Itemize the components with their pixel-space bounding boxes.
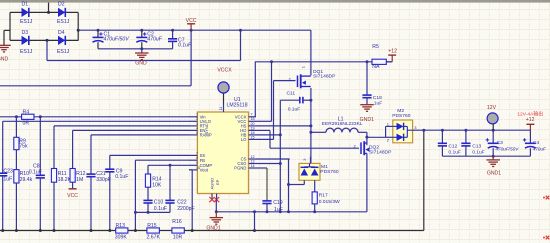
wire pin10 Vout line bbox=[189, 170, 192, 231]
svg-text:NA: NA bbox=[372, 64, 380, 70]
wire pin3 RT line bbox=[54, 126, 189, 169]
capacitor C8 bbox=[29, 117, 45, 231]
wire pin7 SS line bbox=[110, 155, 189, 169]
resistor R10 bbox=[14, 150, 33, 231]
power VCC bbox=[186, 18, 197, 30]
svg-text:AGND: AGND bbox=[209, 178, 214, 190]
wire LO to DQ1 gate bbox=[256, 81, 296, 140]
svg-text:15: 15 bbox=[251, 135, 255, 139]
wire CS riser bbox=[287, 159, 290, 212]
wire M1 top pin bbox=[302, 157, 311, 164]
U1 pin 11 SYNC stub bbox=[219, 105, 223, 113]
marker red right lower bbox=[543, 236, 549, 240]
svg-text:C18: C18 bbox=[373, 95, 382, 101]
ground GND1 output bbox=[486, 156, 501, 176]
wire comp bottom link bbox=[135, 211, 170, 214]
resistor R13 bbox=[115, 223, 128, 241]
svg-text:R17: R17 bbox=[319, 193, 328, 199]
resistor R5 bbox=[372, 44, 386, 70]
label 12V-4A output bbox=[517, 111, 543, 118]
resistor R15 bbox=[147, 223, 161, 241]
capacitor C4 bbox=[523, 130, 547, 156]
svg-text:0.1uF: 0.1uF bbox=[178, 43, 192, 49]
svg-text:0.1uF: 0.1uF bbox=[472, 150, 485, 156]
svg-text:1uF: 1uF bbox=[3, 176, 12, 182]
wire VIN aux rail bbox=[255, 60, 392, 63]
capacitor C15 bbox=[362, 62, 382, 107]
svg-text:ES1J: ES1J bbox=[57, 19, 70, 25]
resistor R17 bbox=[312, 192, 340, 212]
M2 pin stubs bbox=[367, 121, 420, 142]
power VCC below R12 bbox=[67, 189, 78, 199]
svg-text:20: 20 bbox=[251, 122, 255, 126]
svg-text:ES1J: ES1J bbox=[20, 49, 33, 55]
resistor R14 bbox=[145, 165, 162, 200]
svg-text:ES1J: ES1J bbox=[20, 19, 33, 25]
svg-text:R15: R15 bbox=[147, 223, 157, 229]
capacitor C19 bbox=[262, 168, 282, 213]
svg-text:12: 12 bbox=[251, 155, 255, 159]
svg-text:C22: C22 bbox=[177, 200, 187, 206]
svg-text:SI7148DP: SI7148DP bbox=[313, 73, 336, 79]
svg-text:0.1uF: 0.1uF bbox=[29, 170, 42, 176]
svg-text:Vout: Vout bbox=[200, 168, 209, 173]
svg-text:4: 4 bbox=[196, 126, 198, 130]
svg-text:7: 7 bbox=[196, 151, 198, 155]
svg-text:R13: R13 bbox=[116, 223, 126, 229]
ground GND below C2 bbox=[135, 49, 149, 67]
resistor R12 bbox=[70, 169, 86, 189]
svg-text:1uF: 1uF bbox=[374, 100, 382, 106]
wire AC input top bbox=[48, 3, 50, 13]
capacitor C9 bbox=[105, 169, 128, 231]
svg-text:D3: D3 bbox=[22, 30, 29, 36]
wire bridge top rail bbox=[10, 11, 78, 14]
svg-text:470uF: 470uF bbox=[147, 36, 162, 42]
svg-text:470uF/50V: 470uF/50V bbox=[104, 36, 130, 42]
svg-text:R16: R16 bbox=[172, 219, 182, 225]
svg-text:C10: C10 bbox=[154, 200, 164, 206]
transistor DQ1 bbox=[289, 65, 337, 88]
svg-text:LO: LO bbox=[241, 137, 247, 142]
wire C11 HB CSG riser bbox=[279, 100, 281, 212]
svg-text:C12: C12 bbox=[448, 143, 457, 149]
wire pin9 COMP line bbox=[148, 164, 189, 167]
diode pack M1 PDS760 bbox=[299, 163, 339, 180]
svg-text:1: 1 bbox=[196, 113, 198, 117]
wire pin8 FB line bbox=[134, 160, 189, 230]
resistor R16 bbox=[172, 219, 184, 241]
wire bridge left rail bbox=[9, 12, 11, 40]
svg-text:13: 13 bbox=[251, 159, 255, 163]
svg-text:R5: R5 bbox=[372, 44, 379, 50]
wire EP to gnd rail bbox=[215, 199, 217, 212]
wire M1 anode right bbox=[314, 180, 316, 192]
wire DQ1 drain drop bbox=[310, 30, 312, 75]
wire CSG line bbox=[256, 162, 282, 165]
svg-text:SYNC: SYNC bbox=[204, 123, 209, 134]
svg-text:C11: C11 bbox=[287, 90, 296, 96]
capacitor C11 bbox=[280, 90, 311, 112]
capacitor C2 bbox=[136, 30, 162, 49]
diode D3 bbox=[20, 30, 33, 55]
wire bridge bottom rail bbox=[10, 39, 78, 42]
svg-text:18: 18 bbox=[251, 131, 255, 135]
wire PGND to C19 bbox=[256, 167, 267, 169]
svg-text:470uF/50V: 470uF/50V bbox=[495, 147, 519, 152]
diode pack M2 PDS760 bbox=[392, 108, 412, 143]
capacitor C23 bbox=[0, 121, 13, 230]
wire M1 anode left bbox=[289, 180, 305, 184]
resistor R4 bbox=[22, 110, 34, 127]
wire HB bootstrap bbox=[256, 133, 282, 136]
svg-text:5: 5 bbox=[196, 131, 198, 135]
wire VCC pin riser bbox=[256, 60, 273, 121]
svg-text:0.1uF: 0.1uF bbox=[154, 206, 167, 212]
svg-text:M2: M2 bbox=[397, 108, 404, 114]
svg-text:C13: C13 bbox=[472, 143, 481, 149]
capacitor C1 bbox=[93, 30, 130, 49]
power 12V circle bbox=[487, 105, 498, 130]
wire DQ2 source to rail bbox=[366, 153, 368, 211]
capacitor C3 bbox=[486, 130, 520, 156]
transistor DQ2 bbox=[354, 141, 393, 155]
svg-text:11: 11 bbox=[219, 107, 223, 111]
wire HS to switch node bbox=[256, 124, 312, 127]
svg-text:C3: C3 bbox=[497, 140, 504, 146]
ground GND left bbox=[0, 30, 11, 62]
wire cap bottom rail bbox=[98, 47, 173, 50]
svg-text:+12: +12 bbox=[388, 49, 397, 55]
capacitor C12 bbox=[438, 130, 461, 156]
svg-text:2.67K: 2.67K bbox=[147, 235, 161, 241]
svg-text:2: 2 bbox=[196, 117, 198, 121]
svg-text:D1: D1 bbox=[22, 1, 29, 7]
svg-text:470uF: 470uF bbox=[533, 147, 547, 152]
svg-text:LM25118: LM25118 bbox=[227, 103, 248, 109]
svg-text:GND1: GND1 bbox=[206, 226, 220, 232]
svg-text:9: 9 bbox=[196, 161, 198, 165]
wire L1 to DQ2 drain bbox=[365, 132, 368, 145]
svg-text:SI7148DP: SI7148DP bbox=[369, 149, 392, 155]
marker red right upper bbox=[543, 196, 549, 200]
ground GND1 below U1 bbox=[206, 212, 223, 232]
svg-text:ES1J: ES1J bbox=[57, 49, 70, 55]
svg-text:3: 3 bbox=[196, 122, 198, 126]
svg-text:C4: C4 bbox=[533, 140, 540, 146]
svg-text:D4: D4 bbox=[58, 30, 65, 36]
capacitor C21 bbox=[86, 171, 110, 230]
svg-text:VCCX: VCCX bbox=[217, 67, 232, 73]
svg-text:10R: 10R bbox=[173, 235, 183, 241]
svg-text:EP: EP bbox=[215, 179, 220, 185]
svg-text:C23: C23 bbox=[3, 168, 13, 174]
svg-text:PGND: PGND bbox=[234, 166, 246, 171]
svg-text:12V: 12V bbox=[487, 105, 497, 111]
svg-text:309K: 309K bbox=[115, 235, 128, 241]
wire VIN rail bbox=[78, 29, 311, 32]
capacitor C10 bbox=[143, 200, 167, 213]
svg-text:R4: R4 bbox=[23, 110, 30, 116]
wire pin5 RAMP line bbox=[91, 135, 189, 174]
U1 pins and labels bbox=[189, 113, 256, 190]
svg-text:GND: GND bbox=[0, 56, 9, 62]
svg-text:GND: GND bbox=[135, 60, 147, 66]
svg-text:D2: D2 bbox=[58, 1, 65, 7]
capacitor C7 bbox=[168, 30, 192, 49]
svg-text:GND1: GND1 bbox=[487, 170, 501, 176]
power +12 left bbox=[386, 49, 397, 62]
wire CS line bbox=[256, 158, 290, 160]
resistor R11 bbox=[51, 169, 71, 231]
power VCCX circle bbox=[217, 67, 232, 104]
inductor L1 bbox=[311, 116, 367, 132]
svg-text:0.1uF: 0.1uF bbox=[288, 107, 301, 113]
svg-text:C19: C19 bbox=[273, 200, 283, 206]
wire AGND rail bbox=[215, 210, 367, 213]
wire VCCX feed bbox=[254, 62, 256, 117]
wire switch node bbox=[309, 88, 312, 163]
wire pin4 EN line bbox=[73, 130, 189, 168]
svg-text:0.1uF: 0.1uF bbox=[448, 150, 461, 156]
svg-text:+12: +12 bbox=[526, 117, 535, 123]
wire HO to DQ2 gate bbox=[256, 130, 359, 148]
svg-text:1uF: 1uF bbox=[274, 207, 283, 213]
svg-text:75k: 75k bbox=[19, 144, 28, 150]
ground GND1 below C15 bbox=[360, 105, 374, 123]
op-amp U1 body LM25118 bbox=[197, 97, 248, 194]
svg-text:VCC: VCC bbox=[67, 193, 78, 199]
capacitor C22 bbox=[165, 165, 194, 212]
svg-text:7: 7 bbox=[251, 113, 253, 117]
wire AGND to bus link bbox=[254, 212, 256, 231]
wire bottom bus bbox=[0, 130, 424, 232]
svg-text:PDS760: PDS760 bbox=[392, 113, 411, 119]
svg-text:12V-4A输出: 12V-4A输出 bbox=[517, 111, 543, 118]
wire VCC feed down bbox=[0, 30, 191, 86]
diode D2 bbox=[57, 1, 70, 25]
svg-text:EER2918NL223KL: EER2918NL223KL bbox=[322, 121, 363, 127]
svg-text:0.1uF: 0.1uF bbox=[115, 174, 128, 180]
svg-text:0.015/3W: 0.015/3W bbox=[319, 199, 340, 205]
U1 bottom pins AGND EP bbox=[209, 194, 219, 203]
wire pin1 Vin line bbox=[0, 115, 189, 118]
svg-text:14: 14 bbox=[251, 164, 255, 168]
svg-text:330pF: 330pF bbox=[96, 177, 111, 183]
wire pin2 UVLO line bbox=[3, 120, 189, 122]
resistor R9 bbox=[14, 117, 28, 150]
svg-text:VCC: VCC bbox=[186, 18, 197, 24]
svg-text:10K: 10K bbox=[152, 182, 162, 188]
capacitor C13 bbox=[461, 130, 484, 156]
svg-text:GND1: GND1 bbox=[360, 117, 374, 123]
svg-text:29.4k: 29.4k bbox=[20, 177, 33, 183]
wire output rail bbox=[420, 129, 531, 132]
svg-text:PDS760: PDS760 bbox=[320, 169, 339, 175]
power +12 output bbox=[526, 117, 535, 130]
svg-text:19: 19 bbox=[251, 126, 255, 130]
svg-text:1M: 1M bbox=[76, 177, 83, 183]
diode D4 bbox=[57, 30, 70, 55]
wire bridge right rail bbox=[77, 12, 80, 40]
wire output cap bottom rail bbox=[442, 155, 530, 158]
svg-text:8: 8 bbox=[196, 156, 198, 160]
diode D1 bbox=[20, 1, 33, 25]
wire bridge mid feed bbox=[47, 30, 241, 60]
svg-text:16: 16 bbox=[251, 117, 255, 121]
